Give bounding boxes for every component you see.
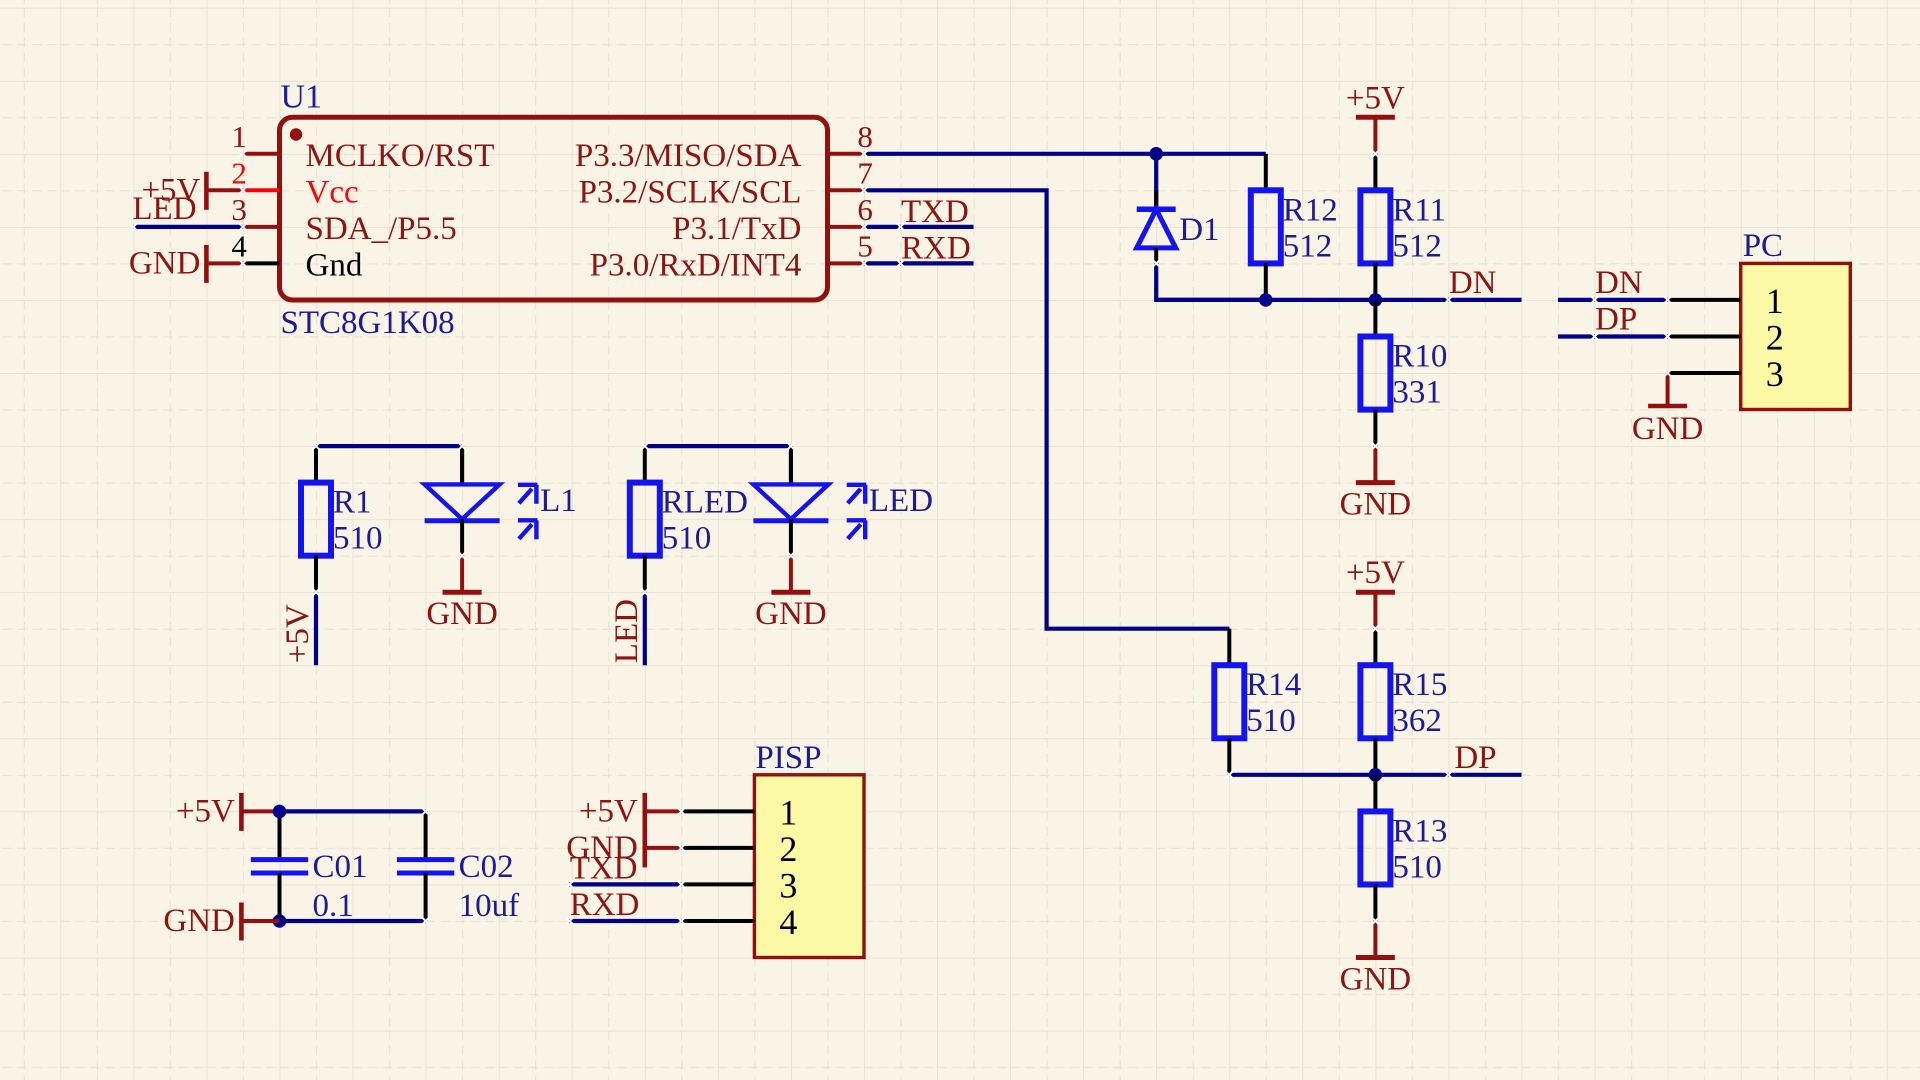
resistor R1 (301, 483, 331, 593)
LED L1 (425, 446, 538, 592)
svg-text:+5V: +5V (1346, 555, 1405, 591)
power +5V at C01/C02 (176, 793, 280, 831)
svg-text:GND: GND (755, 596, 827, 632)
svg-text:5: 5 (857, 228, 873, 263)
U1 pin 1 MCLKO/RST (231, 119, 494, 174)
L1 designator (540, 483, 577, 519)
svg-text:P3.1/TxD: P3.1/TxD (672, 211, 801, 247)
svg-text:1: 1 (1766, 281, 1784, 321)
PC pin 1 (1668, 281, 1784, 321)
svg-text:3: 3 (1766, 354, 1784, 394)
svg-text:510: 510 (1392, 849, 1442, 885)
power +5V at PISP pin 1 (579, 793, 681, 831)
power +5V above R11 (1346, 80, 1405, 154)
power GND at PC pin 3 (1632, 373, 1704, 447)
net label DP (PC) (1595, 302, 1637, 338)
svg-text:510: 510 (662, 521, 712, 557)
power +5V at U1 pin 2 (141, 172, 242, 210)
net wire TXD at U1 pin 6 (864, 225, 974, 229)
svg-text:DN: DN (1449, 265, 1497, 301)
svg-text:512: 512 (1392, 228, 1442, 264)
svg-text:DP: DP (1454, 740, 1496, 776)
svg-text:R13: R13 (1392, 813, 1447, 849)
PISP designator (755, 740, 821, 776)
svg-text:LED: LED (609, 599, 645, 663)
svg-text:L1: L1 (540, 483, 577, 519)
wire DN net (1156, 298, 1521, 302)
svg-text:C02: C02 (459, 849, 514, 885)
wire U1 pin8 to D1/R12 (SDA net) (864, 154, 1266, 191)
svg-text:Vcc: Vcc (306, 175, 359, 211)
net wire TXD at PISP pin 3 (569, 882, 682, 886)
capacitor C01 (251, 860, 308, 873)
power GND at U1 pin 4 (129, 245, 243, 283)
power GND at PISP pin 2 (566, 829, 681, 867)
net label LED (vertical) (609, 599, 645, 663)
svg-text:8: 8 (857, 119, 873, 154)
R14 labels (1246, 667, 1301, 739)
svg-text:+5V: +5V (280, 604, 316, 663)
U1 designator (281, 79, 323, 116)
svg-text:GND: GND (1632, 411, 1704, 447)
PISP pin 3 (681, 865, 797, 905)
svg-text:510: 510 (1246, 703, 1296, 739)
net wire DP at PC (1558, 334, 1668, 338)
svg-text:U1: U1 (281, 79, 323, 116)
svg-text:RXD: RXD (570, 887, 640, 923)
svg-text:P3.0/RxD/INT4: P3.0/RxD/INT4 (590, 248, 802, 284)
net label DP (1454, 740, 1496, 776)
U1 pin 5 P3.0/RxD/INT4 (590, 228, 873, 283)
wire LED riser below RLED (643, 592, 647, 665)
net label +5V (vertical) (280, 604, 316, 663)
junction +5V/C01 (273, 805, 287, 819)
wire U1 pin7 to R14 (SCL net) (864, 190, 1229, 665)
LED lamp (RLED branch) (753, 446, 866, 592)
pin connection marks (130, 150, 1671, 924)
resistor R13 (1360, 775, 1390, 921)
net label RXD (901, 230, 971, 266)
svg-text:+5V: +5V (176, 793, 235, 829)
net wire RXD at PISP pin 4 (569, 919, 682, 923)
net wire DN at PC (1558, 298, 1668, 302)
wire +5V riser below R1 (314, 592, 318, 665)
svg-text:510: 510 (333, 521, 383, 557)
C02 labels (459, 849, 519, 924)
junction R11/R10/DN (1369, 293, 1383, 307)
resistor R14 (1214, 665, 1244, 775)
svg-text:TXD: TXD (901, 194, 969, 230)
C01 labels (313, 849, 368, 924)
net label LED (132, 191, 196, 227)
PC designator (1743, 228, 1783, 264)
svg-text:6: 6 (857, 192, 873, 227)
svg-text:R15: R15 (1392, 667, 1447, 703)
PC pin 2 (1668, 318, 1784, 358)
svg-text:4: 4 (779, 902, 797, 942)
PISP pin 2 (681, 829, 797, 869)
junction R15/R13/DP (1369, 768, 1383, 782)
wire GND rail C01-C02 (280, 873, 426, 921)
resistor R11 (1360, 154, 1390, 300)
capacitor C02 (397, 860, 454, 873)
U1 pin 2 Vcc (231, 155, 358, 210)
svg-text:GND: GND (426, 596, 498, 632)
U1 value STC8G1K08 (281, 305, 455, 341)
svg-text:STC8G1K08: STC8G1K08 (281, 305, 455, 341)
R13 labels (1392, 813, 1447, 885)
power GND below L1 (426, 592, 498, 632)
svg-text:R14: R14 (1246, 667, 1301, 703)
R1 labels (333, 485, 383, 557)
connector PC body (1741, 263, 1851, 409)
svg-text:D1: D1 (1179, 212, 1219, 248)
svg-text:GND: GND (1340, 487, 1412, 523)
PC pin 3 (1668, 354, 1784, 394)
svg-text:362: 362 (1392, 703, 1442, 739)
diode D1 (1137, 154, 1266, 300)
svg-text:R12: R12 (1283, 192, 1338, 228)
svg-text:2: 2 (1766, 318, 1784, 358)
power GND below R13 (1340, 921, 1412, 998)
power +5V above R15 (1346, 555, 1405, 629)
LED designator (869, 483, 933, 519)
svg-text:1: 1 (231, 119, 247, 154)
svg-text:2: 2 (231, 155, 247, 190)
PISP pin 1 (681, 792, 797, 832)
svg-text:GND: GND (129, 245, 201, 281)
U1 pin 8 P3.3/MISO/SDA (575, 119, 873, 174)
svg-text:C01: C01 (313, 849, 368, 885)
R11 labels (1392, 192, 1446, 264)
svg-text:PC: PC (1743, 228, 1783, 264)
net label DN (PC) (1595, 265, 1643, 301)
svg-text:MCLKO/RST: MCLKO/RST (306, 138, 495, 174)
svg-text:R1: R1 (333, 485, 372, 521)
svg-text:PISP: PISP (755, 740, 821, 776)
svg-text:3: 3 (231, 192, 247, 227)
net label TXD (901, 194, 969, 230)
U1 pin 7 P3.2/SCLK/SCL (579, 155, 873, 210)
resistor RLED (630, 483, 660, 593)
net label RXD (PISP) (570, 887, 640, 923)
R12 labels (1283, 192, 1338, 264)
svg-text:DP: DP (1595, 302, 1637, 338)
svg-text:DN: DN (1595, 265, 1643, 301)
wire DP net (1229, 773, 1521, 777)
net label TXD (PISP) (570, 850, 638, 886)
resistor R10 (1360, 300, 1390, 446)
net label DN (1449, 265, 1497, 301)
U1 pin 3 SDA_/P5.5 (231, 192, 456, 247)
svg-text:10uf: 10uf (459, 888, 519, 924)
junction at D1 top (1149, 147, 1163, 161)
svg-text:GND: GND (163, 903, 235, 939)
svg-text:LED: LED (132, 191, 196, 227)
RLED labels (662, 485, 748, 557)
svg-text:331: 331 (1392, 375, 1442, 411)
svg-text:R10: R10 (1392, 339, 1447, 375)
power GND below R10 (1340, 446, 1412, 522)
PISP pin 4 (681, 902, 797, 942)
svg-text:2: 2 (779, 829, 797, 869)
svg-text:+5V: +5V (1346, 80, 1405, 116)
wire R1-L1 top (316, 446, 462, 483)
wire RLED-LED top (645, 446, 791, 483)
R15 labels (1392, 667, 1447, 739)
svg-text:RXD: RXD (901, 230, 971, 266)
svg-text:R11: R11 (1392, 192, 1446, 228)
U1 pin 6 P3.1/TxD (672, 192, 873, 247)
junction R12/DN (1259, 293, 1273, 307)
D1 designator (1179, 212, 1219, 248)
IC U1 body (280, 117, 828, 300)
svg-text:RLED: RLED (662, 485, 748, 521)
svg-text:GND: GND (1340, 962, 1412, 998)
power GND at C01/C02 (163, 903, 279, 941)
svg-text:3: 3 (779, 865, 797, 905)
net wire RXD at U1 pin 5 (864, 261, 974, 265)
U1 pin 4 Gnd (231, 228, 362, 283)
svg-text:SDA_/P5.5: SDA_/P5.5 (306, 211, 457, 247)
R10 labels (1392, 339, 1447, 411)
svg-text:P3.2/SCLK/SCL: P3.2/SCLK/SCL (579, 175, 802, 211)
junction GND/C01 (273, 914, 287, 928)
power GND below LED (755, 592, 827, 632)
svg-text:P3.3/MISO/SDA: P3.3/MISO/SDA (575, 138, 802, 174)
connector PISP body (754, 775, 864, 958)
svg-text:7: 7 (857, 155, 873, 190)
wire LED net at U1 pin 3 (133, 225, 243, 229)
resistor R12 (1251, 190, 1281, 300)
wire +5V rail C01-C02 (280, 811, 426, 859)
svg-text:0.1: 0.1 (313, 888, 354, 924)
svg-text:TXD: TXD (570, 850, 638, 886)
resistor R15 (1360, 629, 1390, 775)
svg-text:LED: LED (869, 483, 933, 519)
svg-text:1: 1 (779, 792, 797, 832)
svg-text:4: 4 (231, 228, 247, 263)
svg-text:+5V: +5V (579, 793, 638, 829)
svg-text:Gnd: Gnd (306, 248, 363, 284)
svg-text:512: 512 (1283, 228, 1333, 264)
